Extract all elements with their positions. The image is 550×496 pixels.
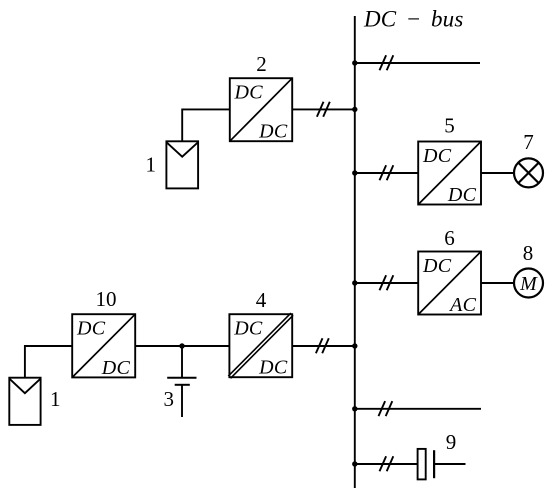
svg-text:1: 1	[146, 153, 157, 177]
svg-text:6: 6	[444, 226, 455, 250]
wire converter 10 to battery node to converter 4	[135, 345, 229, 347]
svg-text:8: 8	[523, 241, 534, 265]
wire bus to capacitor 9	[355, 463, 418, 465]
svg-text:DC: DC	[422, 145, 452, 167]
wire top branch (y=63)	[355, 62, 480, 64]
motor 8	[514, 269, 543, 298]
svg-text:7: 7	[523, 130, 534, 154]
bus tap marks on capacitor wire	[380, 456, 394, 471]
bus tap marks on converter 6 wire	[380, 275, 394, 290]
node battery junction	[179, 343, 184, 348]
wire converter 4 to bus	[292, 345, 355, 347]
svg-text:DC: DC	[258, 121, 288, 143]
bus tap marks on spare branch	[379, 401, 393, 416]
converter U5 (DC/DC)	[418, 142, 481, 206]
converter U10 (DC/DC)	[72, 314, 135, 379]
svg-text:9: 9	[446, 430, 457, 454]
svg-text:DC: DC	[258, 357, 288, 379]
bus tap marks on converter 2 wire	[317, 102, 330, 117]
PV panel 1 (top)	[166, 141, 198, 188]
node bus / capacitor branch	[352, 461, 357, 466]
svg-text:DC − bus: DC − bus	[363, 7, 464, 32]
node bus / converter 4 output	[352, 343, 357, 348]
converter U2 (DC/DC)	[230, 78, 292, 142]
wire PV1(bottom) to converter 10	[25, 346, 72, 378]
node bus / converter 5 input	[352, 170, 357, 175]
wire converter 2 to bus	[292, 108, 355, 110]
wire converter 5 to lamp 7	[481, 172, 514, 174]
svg-text:DC: DC	[101, 357, 131, 379]
svg-text:3: 3	[164, 387, 175, 411]
svg-text:2: 2	[256, 52, 267, 76]
bus tap marks on converter 4 wire	[316, 338, 329, 353]
bus tap marks on top branch	[380, 55, 394, 70]
svg-text:10: 10	[96, 287, 117, 311]
svg-text:DC: DC	[76, 318, 106, 340]
node at bus top branch	[352, 60, 357, 65]
svg-text:DC: DC	[447, 184, 477, 206]
svg-text:5: 5	[444, 114, 455, 138]
svg-text:M: M	[519, 273, 538, 295]
wire converter 6 to motor 8	[481, 282, 514, 284]
wire bus to converter 6	[355, 282, 418, 284]
battery 3	[167, 346, 196, 417]
converter U6 (DC/AC)	[418, 252, 481, 316]
wire bus to converter 5	[355, 172, 418, 174]
svg-text:DC: DC	[233, 318, 263, 340]
svg-text:4: 4	[256, 288, 267, 312]
DC bus vertical line	[354, 16, 356, 488]
wire spare branch (y=409)	[355, 408, 481, 410]
PV panel 1 (bottom)	[9, 378, 40, 425]
lamp 7	[514, 158, 543, 187]
svg-text:1: 1	[50, 387, 61, 411]
node bus / converter 2 output	[352, 107, 357, 112]
node bus / spare branch	[352, 406, 357, 411]
svg-text:DC: DC	[234, 82, 264, 104]
capacitor 9 (polarized)	[418, 449, 466, 480]
svg-text:DC: DC	[422, 255, 452, 277]
wire PV1(top) to converter 2	[182, 109, 230, 141]
converter U4 (bidirectional DC/DC)	[228, 313, 293, 378]
svg-text:AC: AC	[448, 294, 477, 316]
node bus / converter 6 input	[352, 280, 357, 285]
bus tap marks on converter 5 wire	[380, 165, 394, 180]
